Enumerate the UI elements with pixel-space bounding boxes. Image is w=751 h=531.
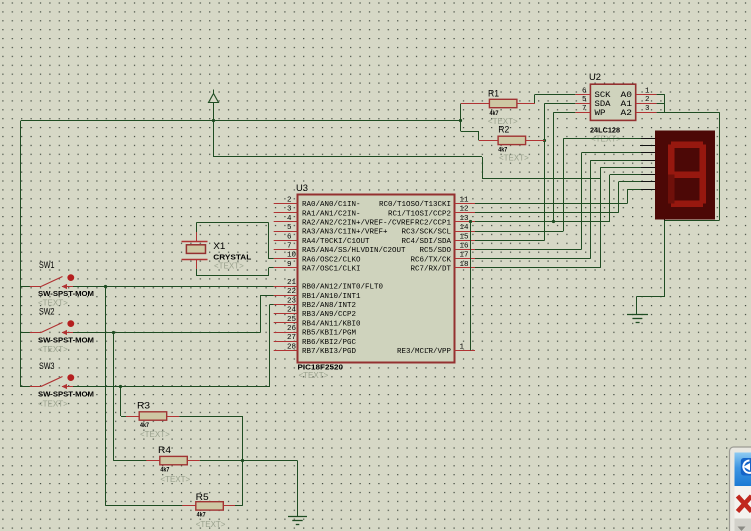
svg-text:RA7/OSC1/CLKI: RA7/OSC1/CLKI: [302, 266, 361, 274]
svg-text:4k7: 4k7: [160, 468, 170, 474]
svg-text:<TEXT>: <TEXT>: [160, 475, 190, 484]
svg-text:RC3/SCK/SCL: RC3/SCK/SCL: [402, 229, 452, 237]
svg-text:RB0/AN12/INT0/FLT0: RB0/AN12/INT0/FLT0: [302, 284, 383, 292]
svg-text:<TEXT>: <TEXT>: [38, 345, 68, 354]
svg-text:1: 1: [460, 343, 465, 351]
svg-text:R1: R1: [488, 89, 499, 99]
svg-text:SW-SPST-MOM: SW-SPST-MOM: [38, 392, 94, 399]
svg-text:U2: U2: [589, 72, 601, 82]
svg-text:CRYSTAL: CRYSTAL: [213, 255, 252, 262]
svg-text:RB1/AN10/INT1: RB1/AN10/INT1: [302, 293, 361, 301]
svg-text:RB2/AN8/INT2: RB2/AN8/INT2: [302, 302, 356, 310]
svg-text:<TEXT>: <TEXT>: [196, 520, 226, 529]
svg-text:A2: A2: [621, 110, 633, 118]
svg-text:RB4/AN11/KBI0: RB4/AN11/KBI0: [302, 320, 361, 328]
svg-text:R5: R5: [196, 492, 209, 502]
svg-text:26: 26: [287, 325, 297, 333]
svg-text:RA1/AN1/C2IN-: RA1/AN1/C2IN-: [302, 210, 361, 218]
svg-text:2: 2: [287, 197, 292, 205]
svg-text:21: 21: [287, 279, 297, 287]
svg-text:27: 27: [287, 334, 296, 342]
svg-text:<TEXT>: <TEXT>: [140, 430, 170, 439]
svg-text:3: 3: [287, 206, 292, 214]
svg-text:22: 22: [287, 288, 296, 296]
svg-text:SW-SPST-MOM: SW-SPST-MOM: [38, 291, 94, 298]
svg-text:RA3/AN3/C1IN+/VREF+: RA3/AN3/C1IN+/VREF+: [302, 229, 388, 237]
svg-text:R2: R2: [498, 125, 509, 135]
svg-text:SW3: SW3: [39, 361, 55, 371]
svg-text:12: 12: [460, 206, 469, 214]
svg-text:RA0/AN0/C1IN-: RA0/AN0/C1IN-: [302, 201, 361, 209]
svg-text:5: 5: [582, 96, 587, 104]
svg-text:18: 18: [460, 261, 469, 269]
svg-text:17: 17: [460, 252, 469, 260]
svg-text:R3: R3: [137, 401, 150, 411]
svg-text:4: 4: [287, 215, 292, 223]
svg-text:WP: WP: [595, 110, 606, 118]
svg-text:7: 7: [582, 105, 587, 113]
svg-text:RB5/KBI1/PGM: RB5/KBI1/PGM: [302, 330, 356, 338]
svg-text:11: 11: [460, 197, 470, 205]
svg-text:<TEXT>: <TEXT>: [299, 371, 329, 380]
svg-text:2: 2: [645, 96, 650, 104]
svg-text:10: 10: [287, 252, 297, 260]
svg-text:14: 14: [460, 224, 470, 232]
svg-text:RE3/MCLR/VPP: RE3/MCLR/VPP: [397, 348, 452, 356]
svg-text:3: 3: [645, 105, 650, 113]
svg-text:6: 6: [582, 87, 587, 95]
svg-text:SW1: SW1: [39, 260, 55, 270]
svg-text:13: 13: [460, 215, 470, 223]
svg-text:X1: X1: [213, 241, 225, 251]
svg-text:A1: A1: [621, 101, 633, 109]
svg-text:SW2: SW2: [39, 307, 55, 317]
svg-text:RC0/T1OSO/T13CKI: RC0/T1OSO/T13CKI: [379, 201, 451, 209]
svg-text:4k7: 4k7: [197, 513, 207, 519]
svg-text:15: 15: [460, 233, 470, 241]
svg-text:6: 6: [287, 233, 292, 241]
svg-text:4k7: 4k7: [140, 423, 150, 429]
svg-text:SCK: SCK: [595, 92, 611, 100]
svg-text:24: 24: [287, 307, 297, 315]
svg-text:<TEXT>: <TEXT>: [38, 400, 68, 409]
svg-text:RC6/TX/CK: RC6/TX/CK: [411, 256, 452, 264]
svg-text:A0: A0: [621, 92, 633, 100]
svg-text:SDA: SDA: [595, 101, 611, 109]
svg-text:<TEXT>: <TEXT>: [214, 262, 244, 271]
svg-text:5: 5: [287, 224, 292, 232]
svg-text:24LC128: 24LC128: [590, 128, 620, 135]
svg-text:25: 25: [287, 316, 297, 324]
svg-text:1: 1: [645, 87, 650, 95]
svg-text:28: 28: [287, 343, 296, 351]
svg-text:RC2/CCP1: RC2/CCP1: [415, 220, 452, 228]
svg-text:16: 16: [460, 243, 470, 251]
svg-text:RA4/T0CKI/C1OUT: RA4/T0CKI/C1OUT: [302, 238, 370, 246]
svg-text:R4: R4: [158, 445, 171, 455]
svg-text:<TEXT>: <TEXT>: [499, 154, 529, 163]
svg-text:23: 23: [287, 297, 297, 305]
svg-text:RB6/KBI2/PGC: RB6/KBI2/PGC: [302, 339, 357, 347]
svg-text:RB7/KBI3/PGD: RB7/KBI3/PGD: [302, 348, 357, 356]
svg-text:RC4/SDI/SDA: RC4/SDI/SDA: [402, 238, 452, 246]
svg-text:U3: U3: [296, 183, 308, 193]
svg-text:9: 9: [287, 261, 292, 269]
svg-text:RC1/T1OSI/CCP2: RC1/T1OSI/CCP2: [388, 210, 451, 218]
svg-text:RA2/AN2/C2IN+/VREF-/CVREF: RA2/AN2/C2IN+/VREF-/CVREF: [302, 220, 415, 228]
svg-text:RC5/SDO: RC5/SDO: [420, 247, 452, 255]
svg-text:RA6/OSC2/CLKO: RA6/OSC2/CLKO: [302, 256, 361, 264]
svg-text:RA5/AN4/SS/HLVDIN/C2OUT: RA5/AN4/SS/HLVDIN/C2OUT: [302, 247, 406, 255]
svg-text:RC7/RX/DT: RC7/RX/DT: [411, 266, 452, 274]
svg-text:RB3/AN9/CCP2: RB3/AN9/CCP2: [302, 311, 356, 319]
svg-text:7: 7: [287, 243, 292, 251]
svg-text:SW-SPST-MOM: SW-SPST-MOM: [38, 337, 94, 344]
